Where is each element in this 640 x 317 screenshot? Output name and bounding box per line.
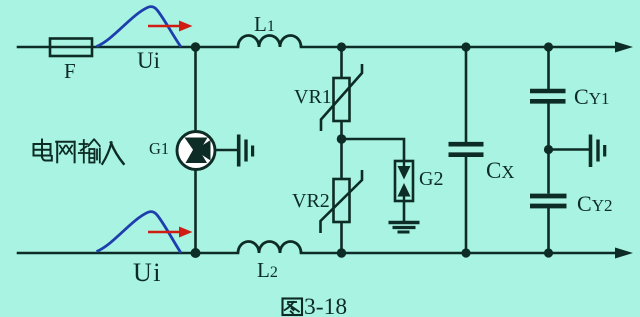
node junction top CY: [544, 42, 553, 51]
入: [102, 143, 111, 164]
ground (rotated) for CY: [591, 135, 605, 168]
inductor L1: [238, 36, 301, 48]
node junction bottom CX: [461, 248, 470, 257]
node arrow top right: [615, 42, 633, 53]
网: [56, 142, 58, 163]
wire VR2 bottom: [340, 222, 343, 253]
wire VRmid to G2: [342, 139, 405, 161]
ground (rotated) for G1: [239, 135, 253, 167]
wire bottom line left: [18, 252, 238, 255]
wire CY2 bottom: [547, 208, 550, 253]
wire VR1 top: [340, 47, 343, 78]
svg-text:CX: CX: [486, 158, 514, 183]
svg-text:Ui: Ui: [137, 48, 160, 73]
svg-text:G2: G2: [419, 168, 443, 190]
wire G1 top vertical: [194, 47, 197, 132]
wire CX top: [465, 47, 468, 142]
gas discharge tube G1: [177, 132, 215, 170]
电: [34, 144, 51, 156]
svg-text:Ui: Ui: [133, 258, 162, 287]
capacitor CY1: [530, 91, 566, 101]
node junction CY mid: [544, 145, 553, 154]
varistor VR2: [321, 170, 363, 233]
node junction VR mid: [337, 134, 347, 144]
输: [79, 140, 100, 163]
wire CY1 top: [547, 47, 550, 89]
varistor VR1: [321, 64, 362, 131]
surge pulse bottom (blue): [97, 212, 182, 253]
caption 图3-18: [283, 299, 303, 316]
ground for G2: [389, 223, 420, 233]
node junction top VR: [337, 42, 346, 51]
svg-text:3-18: 3-18: [304, 294, 347, 317]
wire CX bottom: [465, 157, 468, 253]
label 电网输入 (drawn glyphs): [34, 140, 124, 164]
node junction bottom VR: [337, 248, 346, 257]
wire bottom line right: [301, 252, 617, 255]
svg-text:F: F: [64, 59, 76, 83]
wire CY mid to ground: [549, 148, 590, 151]
node junction top CX: [461, 42, 470, 51]
node junction bottom-left: [191, 248, 201, 258]
wire G1 bottom vertical: [194, 169, 197, 254]
wire G1 to ground: [215, 149, 239, 152]
node junction top-left: [191, 42, 200, 51]
fuse F: [50, 39, 92, 57]
svg-text:VR2: VR2: [292, 190, 330, 212]
wire VR1 to VR2: [340, 121, 343, 179]
svg-text:VR1: VR1: [294, 86, 332, 108]
wire top line right: [301, 46, 617, 49]
node junction bottom CY: [544, 248, 553, 257]
surge pulse top (blue): [97, 7, 182, 47]
arrow red top: [148, 21, 193, 32]
wire top line left: [18, 46, 238, 49]
arrow red bottom: [148, 227, 193, 238]
inductor L2: [238, 242, 301, 254]
capacitor CX: [449, 144, 484, 155]
svg-text:G1: G1: [149, 139, 169, 158]
wire CY1 to CY2: [547, 104, 550, 194]
arrester G2: [395, 161, 413, 201]
node arrow bottom right: [615, 248, 633, 259]
wire G2 to ground: [403, 201, 406, 221]
capacitor CY2: [530, 196, 567, 206]
